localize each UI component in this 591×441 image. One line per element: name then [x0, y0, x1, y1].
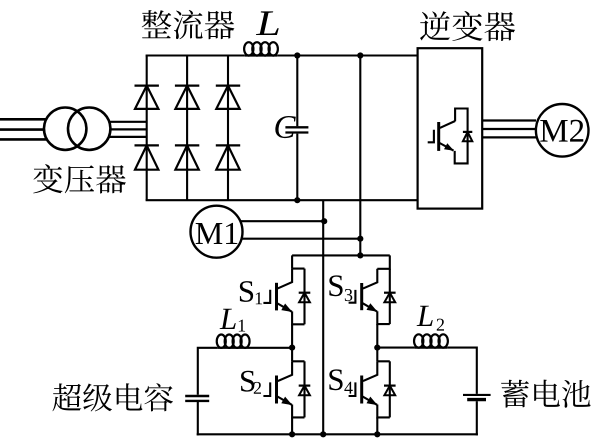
wire: inverter to M2 phase A: [482, 119, 536, 121]
wire: bottom rail: [197, 433, 478, 435]
inductor L2: [414, 334, 448, 347]
label S2: [241, 371, 254, 392]
label S4: [329, 369, 342, 390]
label S3: [329, 275, 342, 296]
wire: rectifier leg 3: [227, 56, 229, 201]
label 整流器 (rectifier): [142, 10, 235, 39]
diode D5 (lower): [175, 145, 199, 169]
label 逆变器 (inverter): [420, 11, 515, 41]
wire: transformer to rectifier phase C: [109, 136, 147, 138]
diode D4 (lower): [135, 145, 159, 169]
label L: [256, 11, 279, 35]
wire: grid phase B input: [0, 128, 44, 131]
wire: capacitor bottom lead: [296, 134, 298, 201]
node: DC+ / chopper bus junction: [357, 52, 363, 58]
motor M2: [536, 104, 589, 157]
node: DC+ / capacitor junction: [294, 52, 300, 58]
node: DC- bus to bottom rail: [320, 431, 326, 437]
diode D6 (lower): [216, 145, 240, 169]
wire: S1 emitter to midpoint: [291, 324, 293, 347]
label L1: [220, 309, 236, 329]
wire: DC- rail: [146, 199, 418, 201]
wire: M1 phase B to DC+ bus: [242, 238, 361, 240]
wire: capacitor top lead: [296, 56, 298, 127]
label M1: [196, 223, 238, 244]
wire: DC+ rail left segment: [146, 54, 245, 56]
wire: L2 to battery: [447, 348, 477, 394]
transformer T1 primary winding: [44, 108, 86, 150]
label 变压器 (transformer): [33, 164, 126, 193]
diode D3 (upper): [216, 86, 240, 109]
label 蓄电池 (battery): [501, 380, 590, 408]
wire: inverter to M2 phase C: [482, 136, 536, 138]
node: S1-S2 midpoint: [289, 345, 295, 351]
capacitor C: [285, 127, 308, 132]
inductor L1: [217, 335, 250, 348]
inductor L: [244, 42, 278, 55]
label M2: [540, 120, 583, 142]
supercapacitor 超级电容: [185, 396, 209, 401]
wire: transformer to rectifier phase A: [109, 121, 147, 123]
node: S4 to bottom rail: [374, 431, 380, 437]
wire: L1 to S1-S2 midpoint: [249, 347, 292, 349]
node: DC+ bus to top bar: [357, 252, 363, 258]
wire: battery to bottom rail: [476, 401, 478, 435]
motor M1: [191, 206, 243, 258]
diode inside inverter: [463, 132, 472, 141]
wire: rectifier leg 1: [146, 56, 148, 201]
diode of S1: [299, 293, 311, 303]
wire: transformer to rectifier phase B: [110, 128, 146, 130]
transistor S1 (IGBT with antiparallel diode): [263, 255, 304, 324]
diode of S2: [299, 386, 311, 396]
wire: chopper top bar: [292, 254, 390, 256]
wire: DC+ rail right segment: [277, 54, 417, 56]
label S1: [240, 281, 253, 302]
transistor S4 (IGBT with antiparallel diode): [349, 348, 390, 418]
wire: DC- bus drop to bottom rail: [322, 200, 324, 434]
wire: supercapacitor to bottom rail: [197, 402, 199, 435]
wire: S2 emitter to bottom rail: [291, 417, 293, 434]
diode D2 (upper): [175, 86, 199, 109]
wire: S3 emitter to midpoint: [376, 324, 378, 348]
wire: S4 emitter to bottom rail: [376, 417, 378, 434]
transistor S3 (IGBT with antiparallel diode): [349, 255, 390, 324]
wire: inverter to M2 phase B: [482, 128, 535, 130]
node: M1 phase A junction: [321, 218, 327, 224]
transistor S2 (IGBT with antiparallel diode): [263, 348, 304, 418]
wire: L1 to supercapacitor: [198, 348, 218, 395]
wire: S3-S4 midpoint to L2: [377, 347, 414, 349]
wire: grid phase A input: [0, 118, 47, 121]
diode of S3: [384, 293, 396, 303]
node: M1 phase B junction: [357, 236, 363, 242]
label C: [275, 116, 295, 138]
node: S3-S4 midpoint: [374, 345, 380, 351]
battery 蓄电池: [463, 395, 491, 400]
inverter U1 box: [418, 48, 483, 208]
node: capacitor to DC- rail: [294, 197, 300, 203]
IGBT symbol inside inverter: [428, 109, 468, 164]
diode D1 (upper): [135, 86, 159, 109]
node: S2 to bottom rail: [289, 431, 295, 437]
label L2: [417, 306, 433, 326]
transformer T1 secondary winding: [68, 108, 110, 150]
wire: M1 phase A to DC- bus: [241, 220, 325, 222]
diode of S4: [384, 386, 396, 396]
wire: rectifier leg 2: [186, 56, 188, 201]
wire: DC+ bus drop to chopper top bar: [359, 56, 361, 256]
wire: grid phase C input: [0, 138, 47, 141]
label 超级电容 (supercapacitor): [52, 383, 172, 411]
